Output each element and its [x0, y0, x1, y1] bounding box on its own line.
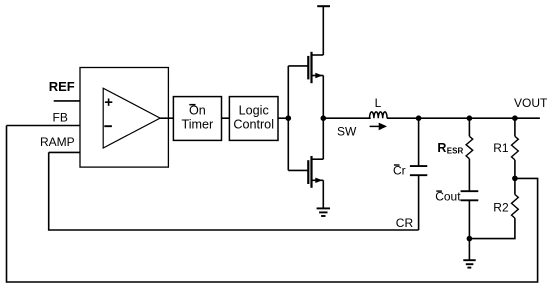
op-amp U1 box — [80, 68, 168, 168]
node gate bus junction — [286, 115, 292, 121]
wire Cout bottom lead — [468, 200, 470, 238]
resistor R2 — [512, 195, 519, 219]
wire Cr upper — [418, 118, 420, 166]
node R1 tap — [512, 115, 518, 121]
wire RESR to Cout — [468, 159, 470, 191]
wire R2 top lead — [514, 178, 516, 194]
svg-text:SW: SW — [337, 125, 357, 139]
wire SW rail — [323, 117, 370, 119]
wire gate bus vertical — [287, 66, 289, 170]
block On Timer box — [173, 97, 221, 141]
overline macron of Cout — [436, 190, 442, 191]
wire to ground — [468, 239, 470, 261]
transistor Q1 high-side MOSFET — [288, 6, 323, 118]
wire Logic Control output to gate bus — [278, 117, 288, 119]
svg-text:Cout: Cout — [435, 190, 461, 204]
node RESR tap — [467, 115, 473, 121]
svg-text:L: L — [375, 96, 382, 110]
wire comparator output — [160, 117, 173, 119]
overline macron of On — [189, 104, 195, 106]
node R1 R2 midpoint — [512, 176, 518, 182]
current direction arrow — [370, 125, 380, 127]
power rail VIN bar — [317, 5, 330, 7]
inductor L — [370, 112, 388, 118]
svg-text:Control: Control — [233, 118, 274, 132]
wire FB input — [7, 125, 81, 127]
op-amp minus input — [104, 125, 112, 127]
svg-text:CR: CR — [396, 216, 414, 230]
node Cr tap — [416, 115, 422, 121]
transistor Q2 low-side MOSFET — [288, 118, 323, 208]
block Logic Control box — [229, 97, 278, 141]
ground under Cout — [463, 260, 475, 267]
svg-text:Timer: Timer — [182, 118, 214, 132]
svg-text:R1: R1 — [493, 141, 509, 155]
overline macron of Cr — [394, 164, 400, 165]
op-amp plus input — [105, 99, 112, 106]
svg-text:VOUT: VOUT — [514, 96, 548, 110]
resistor RESR — [466, 136, 473, 159]
svg-text:R2: R2 — [493, 201, 509, 215]
svg-text:RAMP: RAMP — [40, 135, 75, 149]
ground under Q2 — [317, 208, 330, 216]
wire R1 top lead — [514, 118, 516, 136]
wire R1 bottom lead — [514, 160, 516, 179]
capacitor Cout — [461, 191, 479, 200]
wire RESR top lead — [468, 118, 470, 136]
svg-text:REF: REF — [49, 79, 75, 94]
capacitor Cr — [410, 166, 427, 175]
svg-text:R: R — [437, 141, 446, 155]
wire output rail — [387, 117, 540, 119]
svg-text:On: On — [189, 104, 206, 118]
node SW junction — [321, 115, 327, 121]
svg-text:FB: FB — [53, 110, 68, 124]
wire RAMP input — [49, 151, 80, 153]
wire On Timer to Logic Control — [222, 117, 230, 119]
wire REF input stub — [54, 100, 80, 102]
wire Cr lower — [418, 175, 420, 230]
wire FB feedback from divider — [7, 126, 538, 283]
op-amp U1 triangle — [103, 88, 160, 148]
svg-text:Logic: Logic — [239, 104, 269, 118]
wire RAMP feedback return — [49, 152, 419, 230]
node output ground junction — [467, 236, 473, 242]
resistor R1 — [512, 136, 519, 160]
svg-text:ESR: ESR — [447, 146, 464, 155]
wire R2 bottom lead — [469, 218, 515, 239]
